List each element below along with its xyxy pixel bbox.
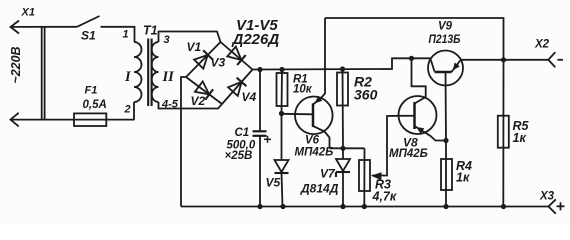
transformer T1 core xyxy=(147,39,149,107)
transformer T1 primary winding I xyxy=(123,24,158,120)
svg-text:X2: X2 xyxy=(534,39,550,51)
mains cord lines xyxy=(41,27,43,120)
wire V6 collector to R3 top xyxy=(330,147,365,149)
node V7 top xyxy=(340,146,345,151)
diode V2 xyxy=(186,77,222,108)
svg-text:С1: С1 xyxy=(235,127,250,139)
node R1 top xyxy=(279,67,284,72)
node V7 bottom xyxy=(340,204,345,209)
svg-text:I: I xyxy=(124,69,132,85)
connector X1 xyxy=(11,7,35,127)
svg-text:Д226Д: Д226Д xyxy=(231,31,280,48)
svg-text:F1: F1 xyxy=(85,85,98,97)
wire pin4-5 to bridge bottom xyxy=(159,102,223,109)
svg-text:Т1: Т1 xyxy=(143,24,158,38)
wire pin3 to bridge top xyxy=(159,32,221,43)
label V1-V5 Д226Д xyxy=(231,17,280,48)
diode V1 xyxy=(186,40,221,77)
svg-text:360: 360 xyxy=(354,87,378,103)
svg-text:II: II xyxy=(162,69,176,85)
node R4 bottom xyxy=(443,204,448,209)
svg-text:V7: V7 xyxy=(320,167,336,181)
transformer T1 secondary winding II xyxy=(152,34,179,111)
diode V5 xyxy=(266,114,289,207)
svg-text:4,7к: 4,7к xyxy=(372,190,397,204)
wire S1 to T1 pin1 xyxy=(101,27,135,42)
svg-text:×25В: ×25В xyxy=(225,150,253,162)
resistor R4 xyxy=(441,141,472,207)
svg-text:Д814Д: Д814Д xyxy=(300,182,339,196)
potentiometer R3 xyxy=(359,148,397,206)
svg-text:МП42Б: МП42Б xyxy=(295,147,334,159)
svg-text:X3: X3 xyxy=(539,191,555,203)
wire top rail (V6 emitter to X2 node) xyxy=(325,18,504,60)
svg-text:П213Б: П213Б xyxy=(429,32,461,46)
switch S1 xyxy=(77,16,100,43)
wire main positive rail xyxy=(253,58,431,69)
wiper arrow R3 from V8 base xyxy=(371,116,399,180)
svg-text:~220В: ~220В xyxy=(9,46,23,83)
node C1 bottom xyxy=(257,204,262,209)
transistor V8 xyxy=(389,58,446,160)
node V5 bottom xyxy=(280,204,285,209)
svg-text:3: 3 xyxy=(164,34,170,46)
wire top input xyxy=(11,26,78,28)
svg-text:1: 1 xyxy=(123,29,129,41)
connector X2 xyxy=(534,39,563,68)
node V8 collector tap xyxy=(409,56,414,61)
svg-text:V1: V1 xyxy=(187,40,202,54)
wire V9 emitter to X2 xyxy=(460,59,548,61)
fuse F1 xyxy=(74,85,135,127)
transistor V9 xyxy=(428,21,463,141)
node R3 bottom xyxy=(362,204,367,209)
transistor V6 xyxy=(282,18,334,159)
svg-text:V6: V6 xyxy=(305,135,320,147)
svg-text:V5: V5 xyxy=(266,176,281,190)
node R1 bottom / V6 base / V5 xyxy=(279,111,284,116)
label ~220V xyxy=(9,46,23,83)
wire bridge minus to bottom rail xyxy=(181,77,186,207)
diode V3 xyxy=(211,42,253,70)
node R2 top xyxy=(340,66,345,71)
svg-text:V3: V3 xyxy=(211,56,226,70)
resistor R5 xyxy=(498,60,530,207)
svg-text:S1: S1 xyxy=(81,29,96,43)
svg-text:10к: 10к xyxy=(293,84,313,96)
capacitor C1 xyxy=(225,70,272,207)
node R5 bottom xyxy=(501,204,506,209)
svg-text:V9: V9 xyxy=(438,21,453,33)
svg-text:МП42Б: МП42Б xyxy=(389,148,428,160)
svg-text:0,5А: 0,5А xyxy=(83,99,107,111)
svg-text:1к: 1к xyxy=(456,171,470,185)
node X2 / R5 top xyxy=(501,57,506,62)
resistor R1 xyxy=(277,70,313,114)
zener V7 xyxy=(300,148,350,206)
node V9 base / R4 xyxy=(443,138,448,143)
svg-text:2: 2 xyxy=(124,104,131,116)
svg-text:V2: V2 xyxy=(191,94,206,108)
diode V4 xyxy=(222,70,257,105)
node bridge output xyxy=(257,67,262,72)
svg-text:V4: V4 xyxy=(242,90,257,104)
resistor R2 xyxy=(337,69,378,148)
wire bottom rail xyxy=(181,206,549,208)
svg-text:X1: X1 xyxy=(21,7,35,19)
wire bottom input xyxy=(11,119,75,121)
svg-text:1к: 1к xyxy=(513,131,527,145)
connector X3 xyxy=(539,191,565,214)
